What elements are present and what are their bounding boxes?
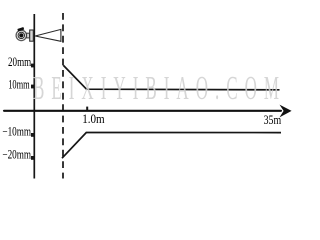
svg-text:35m: 35m [264,113,282,127]
svg-text:−10mm: −10mm [2,125,31,139]
svg-text:1.0m: 1.0m [82,112,105,126]
sensor: inner core dot [19,33,23,37]
sensor: inner ring [18,32,24,38]
dashed vertical reference line [62,13,64,179]
svg-text:10mm: 10mm [8,77,30,91]
wall / y-axis vertical line [33,14,35,179]
sensor: mounting flange [30,30,34,41]
lower tolerance curve (-20mm to -10mm) [62,133,281,159]
sensor: neck connector [27,33,30,38]
x-axis arrowhead [280,105,292,118]
svg-text:−20mm: −20mm [2,148,31,162]
sensor: horn antenna cone [35,29,61,41]
tick -10mm on y-axis [31,133,34,137]
watermark BEIXIYIBIAO.COM [33,69,279,107]
tick 20mm on y-axis [31,64,34,68]
svg-text:20mm: 20mm [8,55,31,69]
svg-text:BEIXIYIBIAO.COM: BEIXIYIBIAO.COM [33,69,279,107]
tick 10mm on y-axis [31,85,34,89]
tick 1.0m on x-axis [86,107,88,111]
upper tolerance curve (+20mm to +10mm) [63,65,279,89]
x-axis line [4,110,281,112]
tick -20mm on y-axis [31,156,34,160]
sensor: tilted cap on top [17,27,24,32]
sensor: housing outer circle [16,30,26,40]
